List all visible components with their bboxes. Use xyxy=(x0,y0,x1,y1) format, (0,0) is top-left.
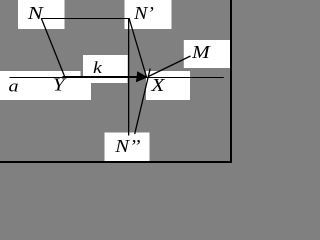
label box N xyxy=(18,0,65,29)
vector k body xyxy=(63,76,141,78)
wire: diagonal corner to arrow tip xyxy=(129,18,147,77)
label box a/Y strip xyxy=(0,71,81,100)
border bottom xyxy=(0,161,232,163)
label box a/Y strip lower-right part xyxy=(81,78,92,100)
svg-text:M: M xyxy=(191,43,211,62)
border right xyxy=(230,0,232,163)
label box k xyxy=(83,55,128,76)
svg-text:N: N xyxy=(27,4,45,23)
wire: top horizontal line N to corner xyxy=(41,18,129,20)
svg-text:N’’: N’’ xyxy=(114,137,140,156)
label box N'' xyxy=(105,133,150,162)
wire: diagonal N to Y xyxy=(41,18,65,77)
label box M xyxy=(184,40,230,68)
svg-text:a: a xyxy=(9,77,19,96)
svg-text:k: k xyxy=(93,59,103,77)
wire: horizontal axis a xyxy=(10,77,224,79)
label box X xyxy=(146,71,190,100)
vector k arrowhead xyxy=(136,71,148,82)
wire: diagonal X point to M xyxy=(148,56,190,77)
label box strip extension under axis xyxy=(91,76,128,83)
svg-text:N’: N’ xyxy=(133,4,154,24)
svg-text:X: X xyxy=(150,76,165,96)
label box N' xyxy=(125,0,172,29)
wire: vertical line corner to N'' xyxy=(128,18,130,136)
wire: diagonal X point to N'' xyxy=(135,69,151,135)
